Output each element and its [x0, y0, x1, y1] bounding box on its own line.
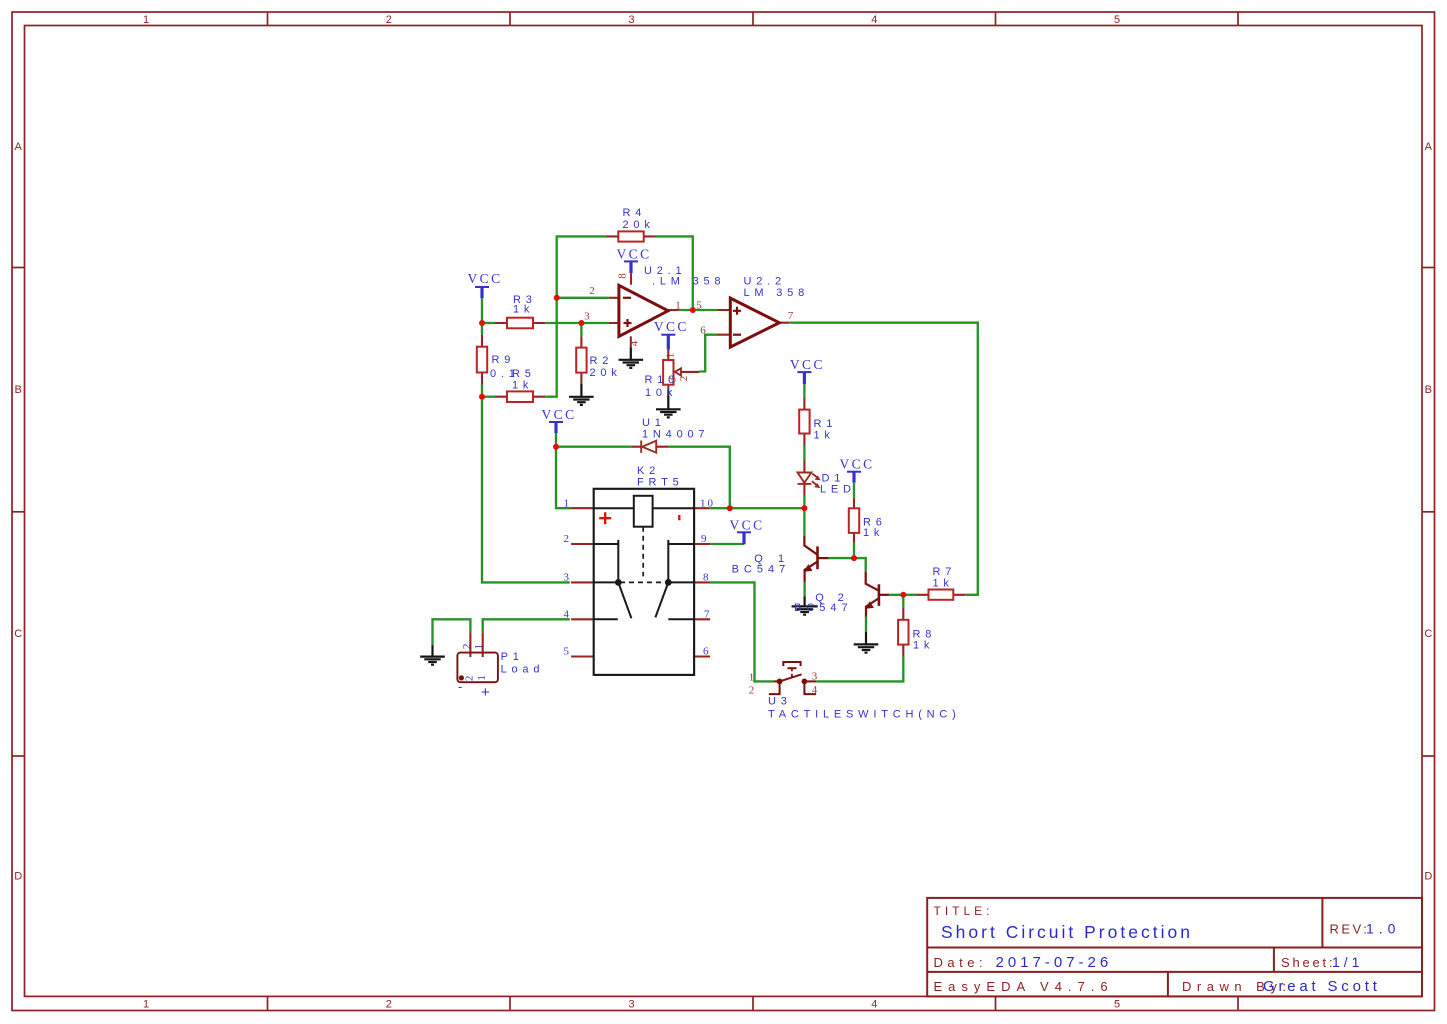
wire R6 node to Q2 collector	[854, 558, 866, 572]
wire R3 left pin stub gap	[482, 322, 495, 324]
wire node to R8 top	[902, 595, 904, 608]
relay coil	[634, 496, 653, 527]
wire opamp1 output to opamp2 pin5	[679, 309, 717, 311]
svg-text:5: 5	[1114, 14, 1120, 26]
svg-text:+: +	[481, 684, 490, 701]
border row letters right	[1424, 141, 1432, 883]
VCC flag relay pin9	[737, 531, 751, 533]
wire coil node to diode anode	[556, 446, 631, 448]
relay right contact	[668, 540, 694, 583]
svg-text:U1: U1	[642, 417, 666, 429]
svg-text:10: 10	[700, 497, 715, 509]
svg-text:Short Circuit Protection: Short Circuit Protection	[941, 922, 1193, 942]
potentiometer R10 wiper arrow	[675, 368, 700, 375]
pins R5	[495, 396, 545, 398]
svg-text:VCC: VCC	[840, 457, 875, 472]
wire R4 right down to opamp output	[656, 236, 693, 310]
resistor R5 1k	[507, 391, 533, 402]
svg-text:LM 358: LM 358	[744, 287, 810, 299]
svg-text:2: 2	[678, 376, 690, 382]
svg-text:1: 1	[143, 14, 149, 26]
svg-text:1: 1	[476, 675, 488, 681]
wire R6 bottom to node	[853, 543, 855, 559]
resistor R4 20k	[618, 231, 643, 241]
pins opamp U2.2	[717, 310, 789, 335]
wire ground to load P1 pin2	[433, 619, 471, 645]
VCC texts	[468, 247, 875, 533]
svg-text:1k: 1k	[933, 578, 954, 590]
wire node down to Q1 collector	[803, 508, 805, 536]
svg-text:4: 4	[871, 998, 877, 1010]
svg-text:2017-07-26: 2017-07-26	[996, 954, 1113, 971]
svg-text:LED: LED	[820, 483, 856, 495]
svg-text:BC547: BC547	[794, 602, 853, 614]
svg-text:1/1: 1/1	[1332, 954, 1363, 970]
wire relay pin10 row to LED node	[709, 507, 804, 509]
pins U1 diode	[631, 446, 668, 448]
pins R10	[667, 350, 669, 391]
ground Q1	[792, 596, 818, 614]
svg-text:2: 2	[386, 14, 392, 26]
pins P1	[470, 632, 482, 657]
svg-text:-: -	[458, 679, 462, 694]
svg-text:VCC: VCC	[654, 319, 689, 334]
svg-text:U3: U3	[768, 696, 792, 708]
resistor R1 1k	[799, 410, 809, 434]
border ticks top	[268, 12, 1239, 26]
VCC flag R6	[847, 471, 861, 473]
wire VCC7 stub to R6 top	[853, 483, 855, 498]
relay body	[594, 489, 694, 675]
pins D1	[803, 461, 805, 496]
svg-text:FRT5: FRT5	[637, 477, 684, 489]
svg-text:6: 6	[703, 646, 709, 658]
border column numbers top	[143, 14, 1120, 26]
wire R1 bottom to LED top	[803, 446, 805, 461]
wire Q1 emitter to ground	[803, 582, 805, 596]
VCC flag R1	[797, 371, 811, 373]
svg-text:6: 6	[700, 325, 706, 337]
wire relay pin4 to load P1 pin1	[483, 619, 570, 632]
svg-text:5: 5	[564, 646, 570, 658]
svg-text:1k: 1k	[863, 527, 884, 539]
relay coil polarity +	[599, 512, 611, 524]
svg-text:2: 2	[386, 998, 392, 1010]
switch plunger	[783, 662, 800, 666]
pins R4	[606, 235, 656, 237]
pins R8	[902, 608, 904, 657]
svg-text:1: 1	[473, 644, 485, 650]
wire Q2 emitter to ground	[865, 617, 867, 632]
potentiometer R10 10k body	[663, 360, 673, 385]
border ticks bottom	[268, 996, 1239, 1010]
svg-text:C: C	[14, 628, 22, 640]
wire R5 right up feedback rail to R4	[545, 236, 606, 396]
svg-text:VCC: VCC	[617, 247, 652, 262]
svg-text:1.0: 1.0	[1366, 921, 1400, 937]
border ticks left	[12, 268, 25, 757]
svg-text:4: 4	[812, 684, 818, 696]
wire left rail down to relay pin3	[482, 397, 570, 583]
svg-text:5: 5	[1114, 998, 1120, 1010]
svg-text:7: 7	[704, 608, 710, 620]
wire Q2 base node to R7	[889, 594, 916, 596]
svg-text:2: 2	[564, 533, 570, 545]
svg-text:8: 8	[703, 572, 709, 584]
svg-text:2: 2	[589, 285, 595, 297]
svg-text:7: 7	[788, 310, 794, 322]
svg-text:VCC: VCC	[468, 271, 503, 286]
svg-text:1k: 1k	[512, 379, 533, 391]
pins R9	[481, 335, 483, 385]
wire Q1 base to R6 node	[828, 557, 854, 559]
svg-text:Date:: Date:	[934, 955, 988, 970]
svg-text:REV:: REV:	[1330, 922, 1370, 937]
svg-text:D: D	[14, 871, 22, 883]
svg-text:B: B	[1425, 384, 1432, 396]
svg-text:EasyEDA V4.7.6: EasyEDA V4.7.6	[934, 979, 1114, 994]
svg-text:Great Scott: Great Scott	[1263, 978, 1381, 995]
resistor R9 0.1	[477, 347, 487, 373]
pins R6	[853, 498, 855, 542]
svg-text:2: 2	[461, 644, 473, 650]
svg-text:B: B	[15, 384, 22, 396]
svg-text:TACTILESWITCH(NC): TACTILESWITCH(NC)	[768, 709, 961, 721]
svg-text:1: 1	[564, 497, 570, 509]
pins R7	[916, 594, 965, 596]
svg-text:8: 8	[617, 273, 629, 279]
wire VCC flag to coil node and relay pin1	[556, 433, 571, 508]
ground load P1	[420, 645, 445, 665]
svg-text:1k: 1k	[513, 303, 534, 315]
wire R10 wiper to opamp2 pin6	[699, 335, 717, 372]
border row letters left	[14, 141, 22, 883]
svg-text:3: 3	[628, 998, 634, 1010]
svg-text:5: 5	[696, 300, 702, 312]
relay left contact	[594, 540, 619, 583]
svg-text:1: 1	[675, 300, 681, 312]
switch pin2 bracket	[769, 681, 780, 694]
svg-text:20k: 20k	[590, 367, 622, 379]
svg-text:R2: R2	[590, 355, 614, 367]
VCC flag opamp U2.1	[624, 260, 638, 262]
svg-text:2: 2	[749, 685, 755, 697]
wire R2 branch from pin3 row	[580, 323, 582, 336]
svg-text:4: 4	[629, 340, 641, 346]
svg-text:K2: K2	[637, 465, 660, 477]
svg-text:R1: R1	[814, 418, 838, 430]
svg-text:VCC: VCC	[542, 407, 577, 422]
ground opamp U2.1 pin4	[619, 347, 644, 368]
svg-text:1k: 1k	[913, 640, 934, 652]
pins relay left	[571, 508, 594, 656]
svg-text:R7: R7	[933, 566, 957, 578]
wire R5 left gap	[482, 396, 495, 398]
svg-text:BC547: BC547	[732, 564, 791, 576]
svg-text:VCC: VCC	[790, 357, 825, 372]
svg-text:1k: 1k	[814, 429, 835, 441]
wire R3 node through R9 to R5 node	[481, 323, 483, 397]
border column numbers bottom	[143, 998, 1120, 1010]
wire inverting input pin2 branch	[557, 297, 609, 299]
pins R1	[803, 398, 805, 446]
pins R2	[580, 336, 582, 383]
svg-text:1: 1	[143, 998, 149, 1010]
wire opamp2 output loop right and down to R7	[789, 323, 978, 595]
switch arm	[780, 674, 802, 681]
border ticks right	[1422, 268, 1435, 757]
svg-text:.LM 358: .LM 358	[652, 276, 725, 288]
svg-text:3: 3	[628, 14, 634, 26]
wire VCC left rail to R3 node	[481, 298, 483, 323]
svg-text:4: 4	[564, 608, 570, 620]
svg-text:TITLE:: TITLE:	[934, 904, 994, 918]
svg-text:3: 3	[667, 376, 679, 382]
wire relay pin9 to VCC	[710, 543, 744, 546]
resistor R3 1k	[507, 318, 533, 329]
svg-text:A: A	[1425, 141, 1433, 153]
wire diode cathode side loop to pin10 row	[668, 447, 729, 509]
switch pin4 bracket	[804, 681, 816, 694]
pins opamp U2.1	[609, 273, 679, 347]
VCC flag relay coil	[549, 421, 563, 423]
svg-text:4: 4	[871, 14, 877, 26]
svg-text:R9: R9	[492, 354, 516, 366]
resistor R6 1k	[849, 508, 859, 533]
svg-text:R4: R4	[623, 207, 647, 219]
svg-text:P1: P1	[501, 651, 524, 663]
svg-text:U2.2: U2.2	[744, 276, 786, 288]
pins R3	[495, 322, 545, 324]
svg-text:3: 3	[564, 572, 570, 584]
svg-text:Load: Load	[501, 663, 545, 675]
resistor R2 20k	[576, 348, 586, 373]
svg-text:Sheet:: Sheet:	[1281, 955, 1335, 970]
svg-text:1N4007: 1N4007	[642, 429, 709, 441]
ground R2	[569, 384, 594, 405]
svg-text:1: 1	[665, 353, 677, 359]
relay coil polarity -	[678, 515, 680, 520]
svg-text:A: A	[15, 141, 23, 153]
svg-text:3: 3	[584, 311, 590, 323]
svg-text:10k: 10k	[645, 387, 677, 399]
svg-text:1: 1	[749, 672, 755, 684]
wire R8 bottom to switch row	[816, 657, 903, 682]
resistor R7 1k	[929, 590, 954, 600]
relay dashed actuator	[642, 527, 644, 577]
svg-text:D: D	[1424, 871, 1432, 883]
wire relay pin8 to switch pin1	[710, 582, 774, 681]
wire VCC to R1 top	[803, 384, 805, 397]
svg-text:VCC: VCC	[730, 517, 765, 532]
wire LED bottom to node	[803, 496, 805, 508]
svg-text:3: 3	[812, 671, 818, 683]
wire R3 right to opamp pin3	[545, 322, 609, 324]
title block box	[927, 898, 1422, 997]
svg-text:2: 2	[463, 676, 475, 682]
svg-text:C: C	[1424, 628, 1432, 640]
VCC flag left rail	[475, 286, 489, 288]
resistor R8 1k	[898, 620, 908, 645]
svg-text:9: 9	[701, 533, 707, 545]
VCC flag R10	[661, 334, 675, 336]
ground Q2	[854, 632, 879, 653]
pins relay right	[694, 508, 710, 656]
ground R10	[656, 391, 681, 418]
svg-text:20k: 20k	[623, 219, 655, 231]
